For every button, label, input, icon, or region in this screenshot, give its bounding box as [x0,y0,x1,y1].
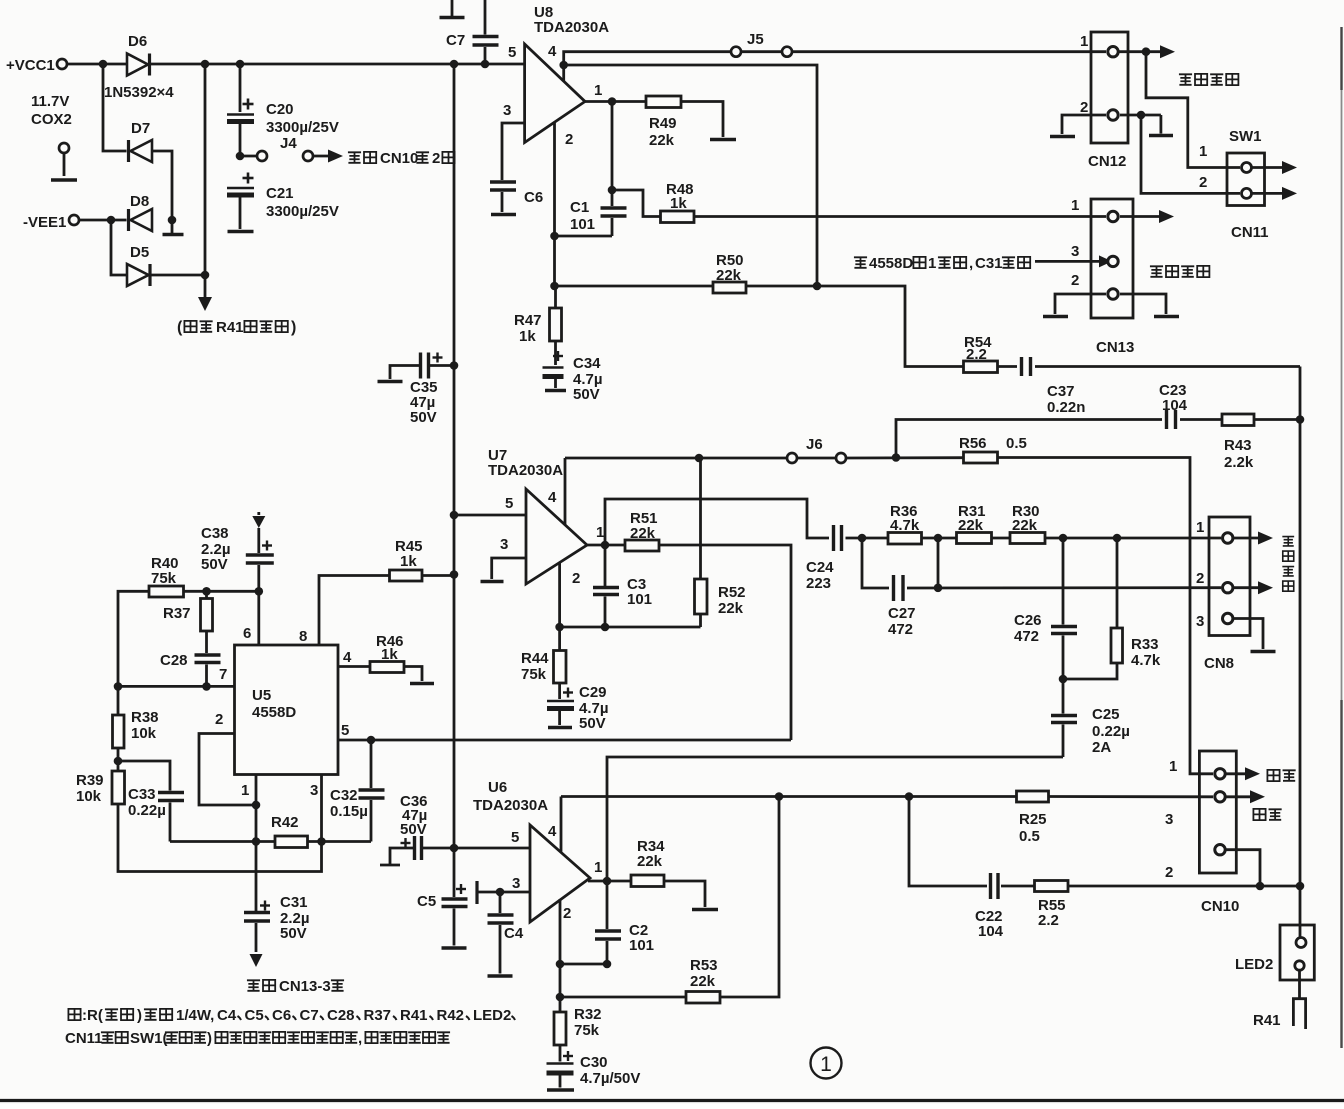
arrow audio out1 [1226,772,1245,775]
diode D7 [127,140,130,162]
node R42 left [252,837,261,846]
svg-text:D5: D5 [130,244,149,261]
wire R49 to ground [681,102,723,138]
SW1 hole2 [1242,188,1252,198]
svg-text:C21: C21 [266,185,294,202]
node pin7 left [114,682,123,691]
switch SW1 [1227,153,1265,206]
node rail-pin5 [450,511,459,520]
svg-text:TDA2030A: TDA2030A [534,19,609,36]
svg-text:2: 2 [1080,99,1088,116]
svg-text:0.22µ: 0.22µ [1092,723,1130,740]
svg-text:50V: 50V [280,925,307,942]
arrow tweeter out1 [1233,537,1258,540]
capacitor C25 [1062,679,1065,714]
svg-text:R43: R43 [1224,437,1252,454]
node CN12 out2 [1137,111,1146,120]
ground above C7 [451,0,454,16]
svg-text:6: 6 [243,625,251,642]
jumper J5 [731,47,741,57]
resistor R45 [390,570,423,581]
capacitor C20 [239,64,242,112]
svg-text:50V: 50V [579,715,606,732]
svg-text:22k: 22k [649,132,675,149]
svg-text:11.7V: 11.7V [31,93,69,110]
label subwoofer line out [1150,266,1163,277]
svg-text:C34: C34 [573,355,601,372]
svg-text:C24: C24 [806,559,834,576]
wire CN13-2 left ground [1055,294,1106,314]
svg-text:101: 101 [629,937,654,954]
terminal -VEE1 [69,215,79,225]
svg-text:4.7k: 4.7k [1131,652,1161,669]
label output [1253,809,1265,820]
svg-text:0.22µ: 0.22µ [128,802,166,819]
svg-text:R39: R39 [76,772,104,789]
svg-text:R41: R41 [400,1007,428,1024]
connector CN12 [1091,32,1128,143]
svg-text:2: 2 [565,131,573,148]
connector CN8 [1209,517,1250,636]
svg-text:C32: C32 [330,787,358,804]
svg-text:,: , [969,255,973,272]
CN12 pin2 hole [1108,110,1118,120]
svg-text:LED2: LED2 [473,1007,511,1024]
svg-text:75k: 75k [574,1022,600,1039]
op-amp U7 [526,489,587,584]
wire U5 pin2 loop [199,734,256,806]
svg-text:2: 2 [563,905,571,922]
capacitor C1 [601,206,627,209]
arrow into C38 [257,512,260,515]
svg-text:R32: R32 [574,1006,602,1023]
capacitor C31 [244,911,270,914]
svg-text:2: 2 [432,150,440,167]
svg-text:101: 101 [570,216,595,233]
node pin2-C1 [550,232,559,241]
resistor R49 [646,96,681,108]
wire C23 line [896,420,1162,458]
svg-text:5: 5 [508,44,516,61]
wire U8 output pin1 [585,100,646,103]
svg-text:1: 1 [1071,197,1079,214]
arrow to R41 other end [204,275,207,297]
wire C27 branch down [862,538,889,588]
svg-text:): ) [137,1007,142,1024]
wire arrow into CN13 pin3 [1035,260,1100,263]
svg-text:SW1(: SW1( [130,1030,168,1047]
svg-text:R37: R37 [364,1007,392,1024]
node R45-rail [450,570,459,579]
svg-text:(: ( [177,319,183,336]
CN13 pin2 hole [1108,289,1118,299]
svg-text:D7: D7 [131,120,150,137]
svg-text:0.22n: 0.22n [1047,399,1085,416]
ground right of CN12 [1160,115,1163,134]
svg-text:4: 4 [548,43,557,60]
wire CN12-2 to SW1-2 [1141,115,1240,193]
CN8 hole1 [1223,533,1233,543]
wire U5 pin4 to R46 [338,665,370,668]
svg-text:0.15µ: 0.15µ [330,803,368,820]
svg-text:223: 223 [806,575,831,592]
svg-text:2.2: 2.2 [966,346,987,363]
capacitor C38 [257,528,260,553]
node mid-rail-bottom [201,271,210,280]
node C7 bottom [481,60,490,69]
svg-text:1: 1 [241,782,249,799]
label connect CN13-3 pin [247,980,260,991]
LED LED2 [1280,925,1314,980]
node U6 out [603,877,612,886]
svg-text:,: , [358,1030,362,1047]
svg-text:104: 104 [978,923,1004,940]
main rail x454 [453,64,456,848]
U6 pin3 plate [475,881,478,904]
svg-text:101: 101 [627,591,652,608]
wire VCC-A down to D7 [103,64,127,151]
svg-text:): ) [207,1030,212,1047]
wire feedback bottom [560,626,701,629]
capacitor C32 [370,740,373,788]
svg-text:CN10: CN10 [1201,898,1239,915]
svg-text:3: 3 [1165,811,1173,828]
jumper J6 [787,453,797,463]
svg-text:472: 472 [888,621,913,638]
svg-text:J5: J5 [747,31,764,48]
svg-text:R25: R25 [1019,811,1047,828]
op-amp U6 [530,825,590,922]
capacitor C7 [484,0,487,35]
svg-text:1: 1 [594,82,602,99]
node R53 top [775,792,784,801]
svg-text:50V: 50V [410,409,437,426]
resistor R40 [149,586,184,597]
wire R31-R30 [992,537,1011,540]
IC U5 4558D [235,645,339,775]
wire U7 pin4 stub [564,458,567,525]
diode D6 [127,54,148,76]
svg-text:C4: C4 [504,925,524,942]
circled 1 page mark [811,1048,842,1079]
node R25-C22 [905,792,914,801]
svg-text:3: 3 [512,875,520,892]
resistor R43 [1222,414,1254,426]
svg-text:1: 1 [820,1053,832,1076]
label audio [1267,770,1279,781]
node C26 top [1059,534,1068,543]
svg-text:1: 1 [1199,143,1207,160]
svg-text:4.7µ/50V: 4.7µ/50V [580,1070,640,1087]
wire R50 to corner [746,286,964,367]
wire U5 pin7 line [118,685,235,688]
wire U7 pin3 ground [492,558,526,579]
wire pin4 node to right [564,65,817,286]
resistor R33 [1116,538,1119,628]
resistor R56 [964,452,998,463]
capacitor C35 [429,364,455,367]
svg-text:1: 1 [594,859,602,876]
resistor R41 (not installed) [1293,999,1305,1029]
wire R53 line [720,797,779,998]
node C2 bottom [603,960,612,969]
arrow tweeter out2 [1233,586,1258,589]
node pin3-C4 [496,888,505,897]
svg-text:TDA2030A: TDA2030A [488,462,563,479]
wire C33 to R42 [170,840,275,843]
svg-text:R41: R41 [216,319,244,336]
resistor R46 [370,662,404,673]
wire U8 pin2 down [553,122,556,286]
wire C24 feed [605,499,829,545]
U7 pin2 stub [558,563,561,628]
wire R51 right loop [659,545,791,740]
svg-text:22k: 22k [690,973,716,990]
CN13 pin1 hole [1108,211,1118,221]
node U8 out [608,97,617,106]
node pin2-R32 [556,993,565,1002]
svg-text:1k: 1k [400,553,417,570]
wire R34 ground [664,881,705,907]
diode D5 [127,264,149,286]
svg-text:C5: C5 [245,1007,264,1024]
svg-text:7: 7 [219,666,227,683]
node R56 left [892,453,901,462]
resistor R50 [713,282,746,293]
capacitor C23 [1165,410,1168,429]
svg-text:10k: 10k [76,788,102,805]
capacitor C22 [989,873,992,899]
svg-text:22k: 22k [716,267,742,284]
wire R30 to CN8 [1045,537,1221,540]
svg-text:C28: C28 [327,1007,355,1024]
wire U5 pin3 down [320,775,323,842]
svg-text:C1: C1 [570,199,589,216]
svg-text:75k: 75k [151,570,177,587]
capacitor C24 [832,525,835,551]
wire U8 pin3 to C6 [502,123,525,180]
connector CN10 [1199,751,1236,873]
svg-text:D8: D8 [130,193,149,210]
arrow audio out2 [1226,795,1250,798]
node C20 top [236,60,245,69]
wire C2 to pin2 [560,963,607,966]
wire U5 pin1 down [255,775,258,912]
resistor R51 [625,540,659,551]
svg-text:R56: R56 [959,435,987,452]
svg-text:C20: C20 [266,101,294,118]
wire D5 to mid rail [152,274,206,277]
node mid-rail-top [201,60,210,69]
svg-text:22k: 22k [637,853,663,870]
svg-text:50V: 50V [400,821,427,838]
svg-text:5: 5 [341,722,349,739]
svg-text:3: 3 [1071,243,1079,260]
node C25 top [1059,675,1068,684]
node R50 left [550,282,559,291]
resistor R47 [554,286,557,308]
svg-text:0.5: 0.5 [1019,828,1040,845]
wire R56 to CN10 rail [998,458,1214,774]
wire U6 out [588,880,631,883]
resistor R44 [558,627,561,651]
svg-text:C4: C4 [217,1007,237,1024]
label to 4558D pin1, C31 neg [854,257,867,268]
terminal GND input [59,143,69,153]
wire U6 pin4 stub [560,797,563,852]
wire R40 left loop [118,591,149,715]
wire LED2 to R41 [1298,971,1301,999]
svg-text:2: 2 [1071,272,1079,289]
wire R36out-C27 [937,538,940,588]
node C3 bottom [601,623,610,632]
node U8 pin4 [559,61,568,70]
svg-text:4: 4 [548,489,557,506]
svg-text:2: 2 [1196,570,1204,587]
node rail-C22line [1296,882,1305,891]
svg-text:3300µ/25V: 3300µ/25V [266,119,339,136]
svg-text:CN11: CN11 [1231,224,1269,241]
svg-text:C28: C28 [160,652,188,669]
node R33 top [1113,534,1122,543]
wire CN8-3 ground [1233,619,1263,650]
node pin2-C2 [556,960,565,969]
svg-text:CN13: CN13 [1096,339,1134,356]
capacitor C27 [892,575,895,601]
svg-text:R41: R41 [1253,1012,1281,1029]
wire CN12-2 right [1120,114,1161,117]
svg-text:C25: C25 [1092,706,1120,723]
svg-text:1: 1 [1196,519,1204,536]
svg-text:1/4W,: 1/4W, [176,1007,214,1024]
svg-text:C27: C27 [888,605,916,622]
svg-text:50V: 50V [201,556,228,573]
node J4 [236,152,245,161]
svg-text:4: 4 [343,649,352,666]
svg-text:0.5: 0.5 [1006,435,1027,452]
wire gnd-stub [63,153,66,176]
svg-text:D6: D6 [128,33,147,50]
wire R42 to C32 [308,840,372,843]
resistor R54 [964,361,998,373]
wire VEE-A down to D5 [111,220,127,275]
node U7 out [601,541,610,550]
svg-text:10k: 10k [131,725,157,742]
svg-text:1k: 1k [381,646,398,663]
node CN12 out1 [1142,47,1151,56]
node R36 out [934,534,943,543]
resistor R52 [699,458,702,579]
node R40-R37 [202,587,211,596]
svg-text:C37: C37 [1047,383,1075,400]
wire U7 out [587,544,625,547]
label connect CN10 pin2 [348,152,361,163]
CN8 hole2 [1223,583,1233,593]
node pin6-R40 [254,587,263,596]
node C35-rail [450,361,459,370]
svg-text:CN8: CN8 [1204,655,1234,672]
svg-text:C6: C6 [524,189,543,206]
resistor R37 [205,591,208,598]
connector CN13 [1091,199,1133,318]
LED2 hole2 [1295,961,1304,970]
svg-text:J6: J6 [806,436,823,453]
resistor R34 [631,875,664,887]
capacitor C2 [606,881,609,929]
node C24 out [858,534,867,543]
resistor R39 [112,771,125,804]
wire U6 pin4 line [561,795,1017,798]
svg-text:104: 104 [1162,397,1188,414]
capacitor C5 [453,848,456,897]
svg-text:R42: R42 [437,1007,465,1024]
wire R48 to CN13 pin1 [694,215,1106,218]
node C1 top [608,186,617,195]
wire U8 out down to C1 [611,102,614,207]
svg-text:C6: C6 [272,1007,291,1024]
resistor R25 [1017,791,1049,802]
svg-text:R49: R49 [649,115,677,132]
svg-text:C31: C31 [280,894,308,911]
resistor R38 [113,715,125,748]
svg-text:C30: C30 [580,1054,608,1071]
wire C25 to U6 out [607,757,1063,881]
svg-text:8: 8 [299,628,307,645]
op-amp U8 [525,44,585,143]
svg-text:SW1: SW1 [1229,128,1262,145]
svg-text:LED2: LED2 [1235,956,1273,973]
wire D7 to D8 node [152,151,172,220]
resistor R32 [559,997,562,1012]
capacitor C34 [554,341,557,365]
wire J6 line [565,457,787,460]
svg-text:1: 1 [928,255,936,272]
svg-text:2A: 2A [1092,739,1111,756]
resistor R36 [888,533,922,545]
wire U7 pin5 [454,514,526,517]
svg-text:C38: C38 [201,525,229,542]
svg-text:U6: U6 [488,779,507,796]
label tweeter output vertical [1282,537,1294,546]
svg-text:1k: 1k [670,195,687,212]
svg-text:C31: C31 [975,255,1003,272]
svg-text:R47: R47 [514,312,542,329]
svg-text:C26: C26 [1014,612,1042,629]
wire U5pin5 line [338,739,791,742]
wire R36-R31 [922,537,957,540]
svg-text:R37: R37 [163,605,191,622]
wire R38-R39 [117,748,120,771]
capacitor C36 [380,864,400,867]
right edge scan line [1340,27,1342,90]
arrow subwoofer out [1119,50,1161,53]
wire U6 pin3 [477,891,530,894]
CN13 pin3 hole [1108,256,1118,266]
svg-text::R(: :R( [82,1007,103,1024]
svg-text:3: 3 [503,102,511,119]
svg-text:4558D: 4558D [869,255,913,272]
svg-text:2: 2 [1199,174,1207,191]
arrow subwoofer output [1120,215,1160,218]
svg-text:TDA2030A: TDA2030A [473,797,548,814]
resistor R55 [1035,881,1069,892]
terminal +VCC1 [57,59,67,69]
svg-text:C7: C7 [446,32,465,49]
node U5 pin5 junction [367,736,376,745]
wire C1 bottom to pin2 [555,235,613,238]
wire CN10-2 down [1226,850,1260,886]
svg-text:22k: 22k [630,525,656,542]
